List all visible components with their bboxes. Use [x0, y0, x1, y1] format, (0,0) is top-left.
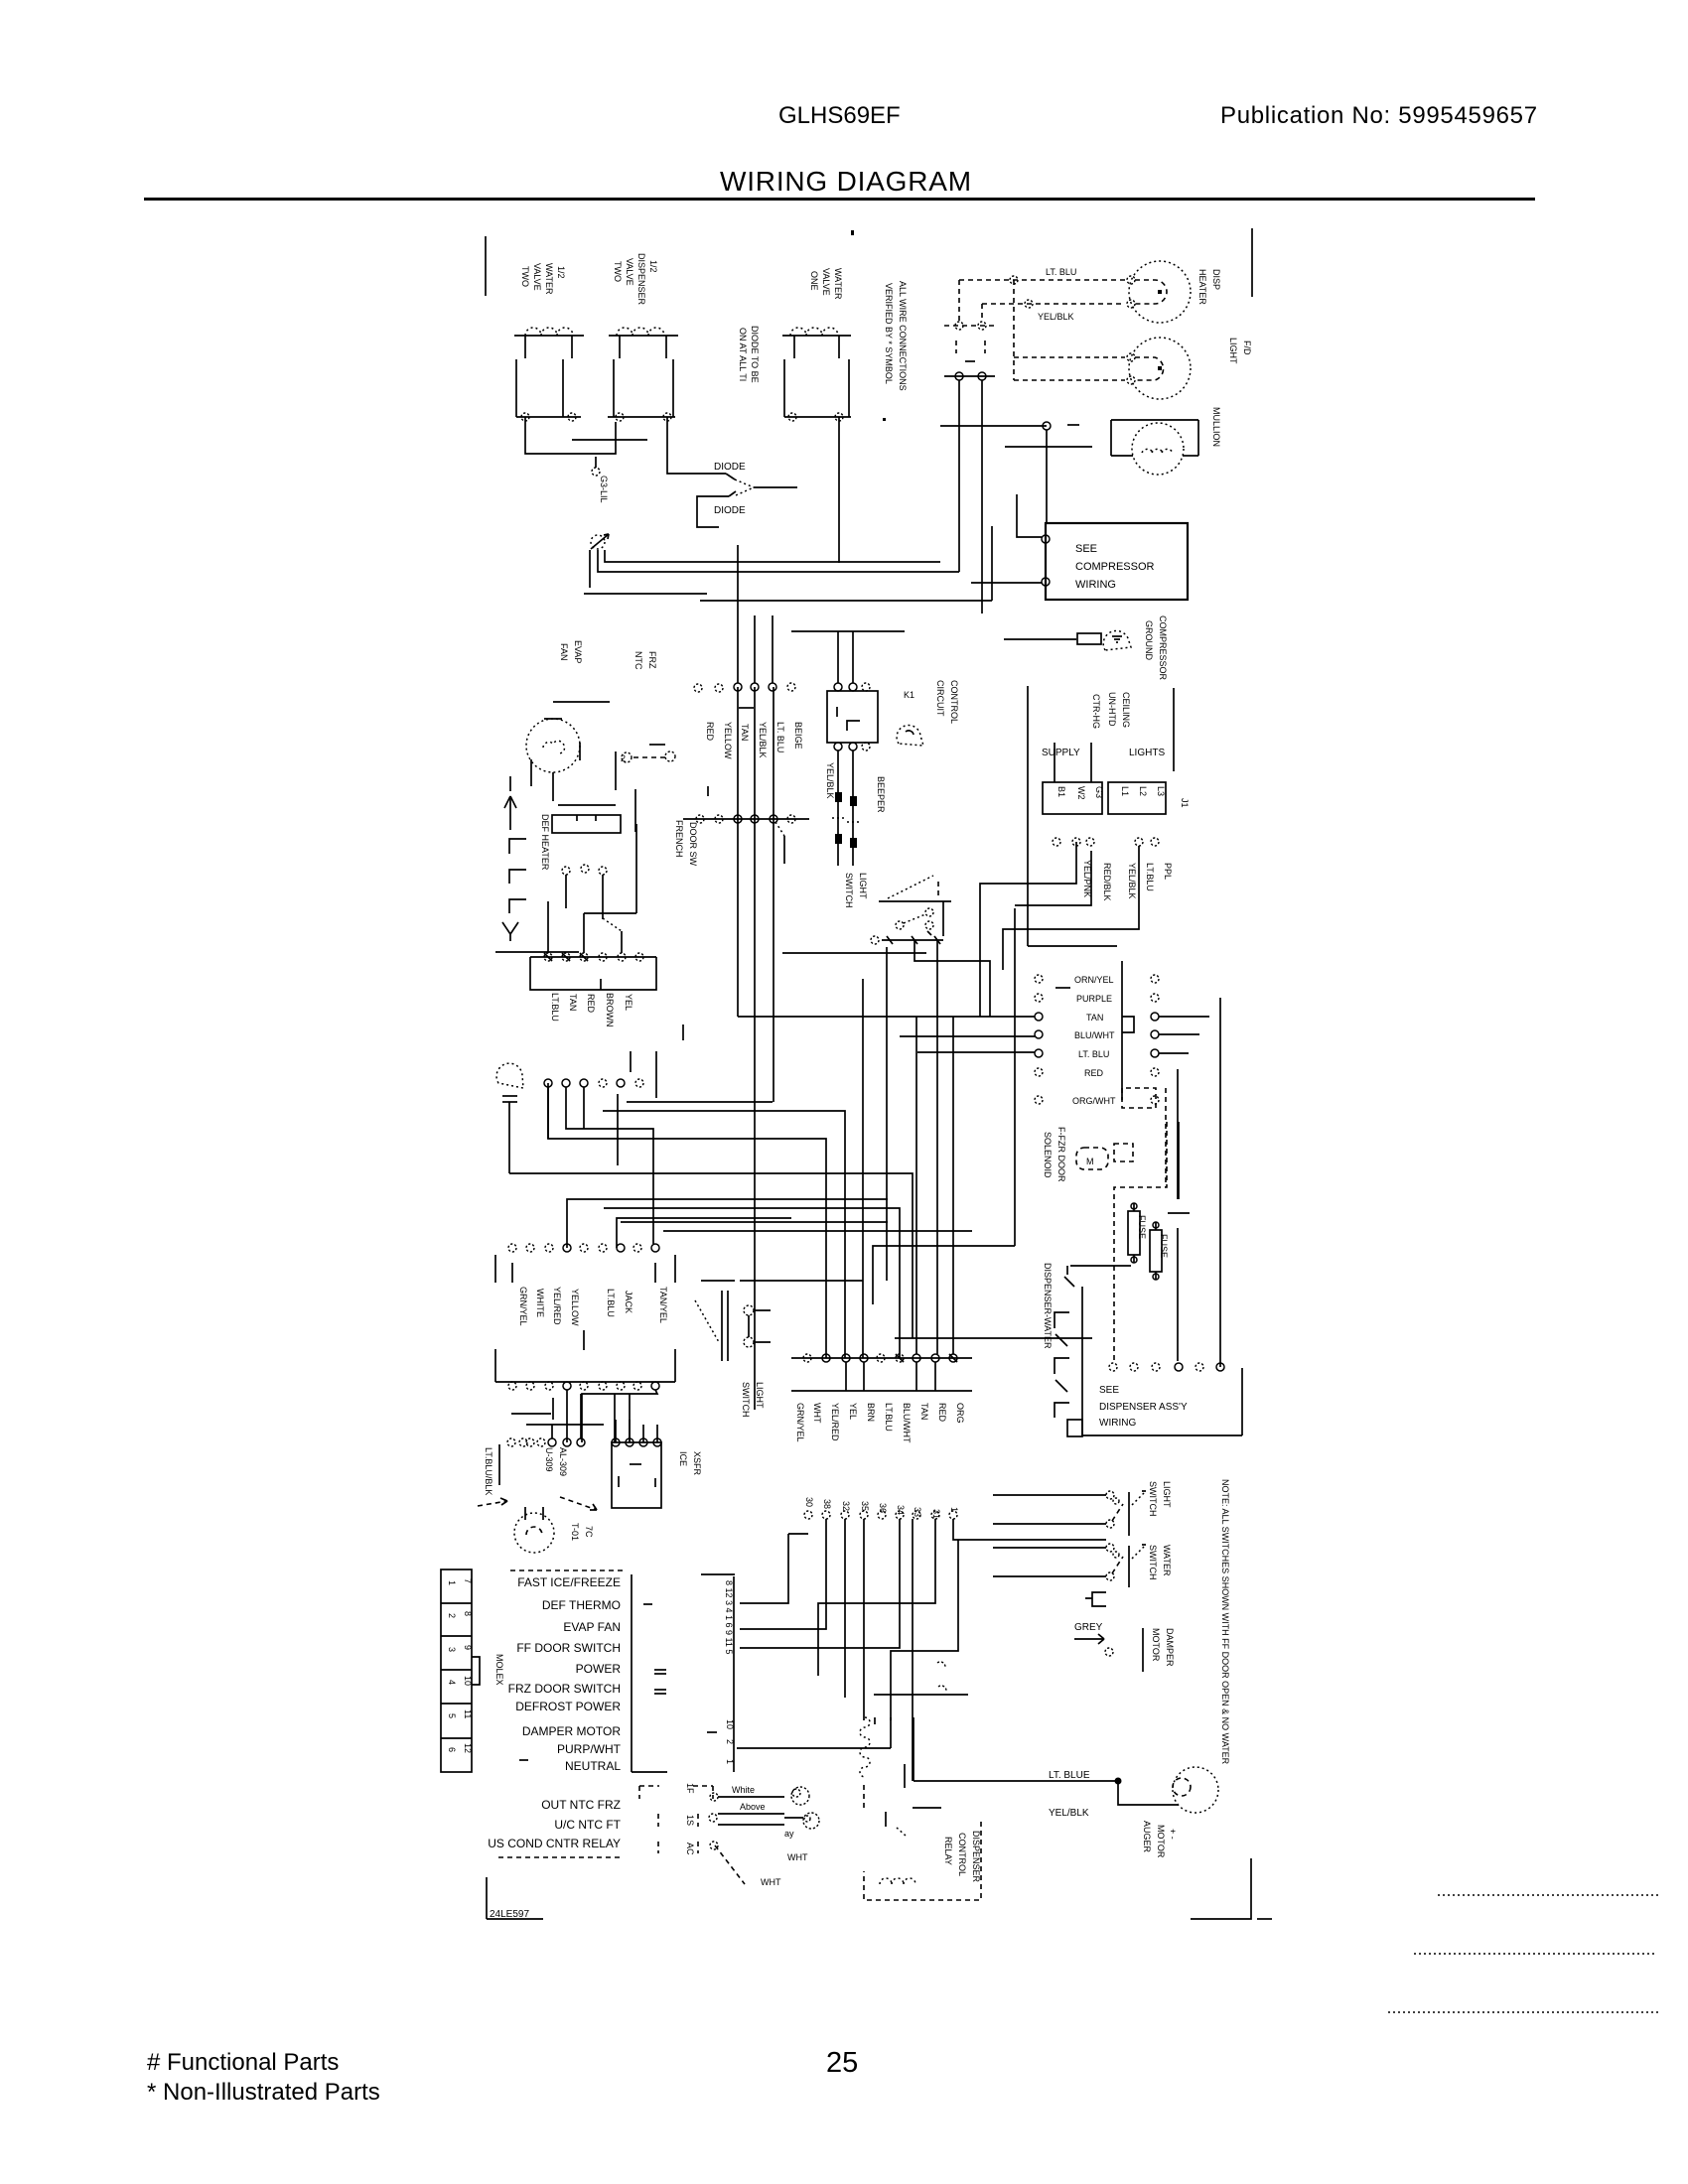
- pin row under J boxes: [1053, 838, 1159, 846]
- svg-text:TWO: TWO: [520, 266, 530, 287]
- lattice 1182 run: [509, 1173, 913, 1338]
- dispenser master switch wire: [1064, 1266, 1131, 1435]
- svg-text:32: 32: [841, 1501, 851, 1511]
- svg-text:35: 35: [860, 1501, 870, 1511]
- svg-text:LT.BLU: LT.BLU: [606, 1289, 616, 1317]
- defrost timer motor: [514, 1507, 554, 1553]
- ntc link: [621, 745, 675, 763]
- compressor ground terminal: [1077, 633, 1101, 644]
- svg-text:DIODE: DIODE: [714, 462, 746, 473]
- timer leader arrows: [478, 1497, 597, 1510]
- svg-text:* Non-Illustrated Parts: * Non-Illustrated Parts: [147, 2079, 380, 2106]
- light switch symbol: [879, 876, 951, 936]
- main connector row3: [791, 1354, 972, 1391]
- wire riser to compressor box: [991, 526, 993, 601]
- svg-text:36: 36: [878, 1503, 888, 1513]
- wht dashed lead: [715, 1845, 808, 1887]
- lattice 1255 run: [873, 1246, 1015, 1304]
- svg-text:1S: 1S: [685, 1815, 695, 1826]
- svg-text:RED: RED: [586, 994, 596, 1014]
- mullion heater box: [1111, 420, 1198, 456]
- wire switch drop a: [886, 947, 888, 1281]
- svg-text:RED/BLK: RED/BLK: [1102, 863, 1112, 901]
- rail corner bottom: [632, 1771, 667, 1773]
- vertical 1186: [1177, 1069, 1179, 1361]
- title rule: [144, 198, 1535, 201]
- power board connector row: [508, 1244, 659, 1252]
- svg-text:GLHS69EF: GLHS69EF: [778, 102, 901, 129]
- svg-text:ONE: ONE: [809, 271, 819, 291]
- row3 wire labels: [795, 1403, 965, 1443]
- lt blue feed vertical: [913, 1717, 914, 1781]
- svg-text:BROWN: BROWN: [605, 993, 615, 1027]
- svg-text:GRN/YEL: GRN/YEL: [518, 1287, 528, 1326]
- disp water switch cluster: [993, 1544, 1146, 1587]
- svg-text:YEL/BLK: YEL/BLK: [758, 722, 768, 758]
- dispenser valve body: [608, 359, 675, 421]
- svg-text:Publication No: 5995459657: Publication No: 5995459657: [1220, 102, 1538, 129]
- wire neutral corner: [875, 1717, 891, 1748]
- row4 numbered pins: [804, 1497, 959, 1519]
- lt blue wire: [914, 1770, 1122, 1785]
- svg-text:TAN: TAN: [1086, 1013, 1103, 1023]
- lattice 1348 run: [895, 1337, 1092, 1339]
- wire overload row: [940, 422, 1079, 523]
- water valve two label: [520, 263, 566, 295]
- svg-text:CONTROL: CONTROL: [949, 680, 959, 724]
- disp light switch label: [1148, 1481, 1172, 1517]
- svg-text:8 12 3 4 1 6 9 11 5: 8 12 3 4 1 6 9 11 5: [724, 1580, 734, 1654]
- water valve two body: [516, 359, 581, 421]
- wire color labels under J: [1082, 860, 1173, 901]
- svg-text:WIRING: WIRING: [1075, 579, 1116, 591]
- svg-text:FRENCH: FRENCH: [674, 820, 684, 858]
- svg-text:NTC: NTC: [633, 651, 643, 670]
- svg-text:DISPENSER-WATER: DISPENSER-WATER: [1043, 1263, 1053, 1349]
- lattice 1290 run: [740, 1280, 863, 1282]
- id labels right: [707, 1719, 735, 1764]
- row4 fanout wires: [740, 1519, 1106, 1781]
- wire above fan: [553, 701, 610, 703]
- compressor ground lug: [1103, 630, 1131, 650]
- svg-text:SWITCH: SWITCH: [1148, 1545, 1158, 1580]
- compressor terminal row: [944, 372, 995, 572]
- relay list ticks: [519, 1604, 666, 1760]
- dispenser relay small stubs: [864, 1764, 941, 1836]
- frz door labels: [1043, 1127, 1066, 1182]
- svg-text:BEEPER: BEEPER: [876, 776, 886, 813]
- svg-text:ICE: ICE: [678, 1451, 688, 1466]
- stub by fuse: [1168, 1212, 1190, 1214]
- defrost heater cap symbol: [695, 1281, 735, 1361]
- wire ntc drops: [616, 751, 635, 832]
- compressor ground wire: [1004, 638, 1076, 640]
- svg-text:LIGHT: LIGHT: [1228, 338, 1238, 364]
- svg-text:K1: K1: [904, 690, 914, 700]
- svg-text:DISPENSER: DISPENSER: [971, 1831, 981, 1883]
- light switch pin row: [871, 936, 943, 944]
- timer label: [570, 1523, 594, 1541]
- ice xsfr label: [678, 1451, 702, 1476]
- water valve one label: [809, 268, 843, 300]
- svg-text:U-309: U-309: [544, 1447, 554, 1472]
- svg-text:PURPLE: PURPLE: [1076, 994, 1112, 1004]
- svg-text:WHITE: WHITE: [535, 1289, 545, 1317]
- dispenser heater label: [1197, 269, 1221, 305]
- svg-text:CEILING: CEILING: [1121, 692, 1131, 728]
- damper motor label: [1151, 1628, 1175, 1667]
- svg-text:TAN: TAN: [568, 994, 578, 1011]
- power board box: [495, 1255, 675, 1382]
- svg-text:12: 12: [463, 1743, 473, 1753]
- ground lug lower left: [496, 1063, 523, 1173]
- strain squiggle: [860, 1717, 870, 1777]
- lattice 1217 run: [604, 1208, 900, 1358]
- svg-text:1F: 1F: [685, 1783, 695, 1794]
- beeper symbol: [897, 726, 923, 746]
- wire right mid vertical: [1027, 686, 1029, 946]
- all wire connections note: [883, 281, 908, 421]
- aux contact: [1085, 1592, 1106, 1606]
- svg-text:YELLOW: YELLOW: [723, 722, 733, 759]
- connector box F: [552, 805, 621, 833]
- wire drop t2 lower: [754, 687, 756, 1410]
- svg-text:GREY: GREY: [1074, 1622, 1103, 1633]
- svg-text:WIRING: WIRING: [1099, 1418, 1136, 1429]
- stray dot top: [851, 230, 854, 235]
- svg-text:EVAP FAN: EVAP FAN: [563, 1620, 621, 1634]
- svg-text:RELAY: RELAY: [943, 1837, 953, 1865]
- freezer harness connector row2: [544, 1079, 653, 1244]
- svg-text:25: 25: [826, 2047, 858, 2079]
- svg-text:WIRING DIAGRAM: WIRING DIAGRAM: [720, 166, 972, 197]
- nested corner c4: [1028, 945, 1117, 947]
- lilac wire stub: [592, 457, 609, 503]
- svg-text:MULLION: MULLION: [1211, 407, 1221, 447]
- svg-text:1: 1: [949, 1507, 959, 1512]
- fork terminal: [502, 922, 518, 941]
- wire dispenser valve crossing: [572, 439, 647, 441]
- harness pins above: [548, 824, 636, 953]
- auger motor: [1173, 1767, 1218, 1813]
- svg-text:1/2: 1/2: [648, 260, 658, 273]
- svg-text:G3-LIL: G3-LIL: [599, 476, 609, 503]
- svg-text:PURP/WHT: PURP/WHT: [557, 1742, 622, 1756]
- wire drop t1: [737, 545, 739, 683]
- svg-text:MOTOR: MOTOR: [1156, 1825, 1166, 1858]
- evap fan label: [559, 640, 583, 663]
- svg-text:F/D: F/D: [1242, 341, 1252, 355]
- solid drop 1187 upper: [1178, 1122, 1180, 1199]
- wire tee to pins: [791, 631, 905, 683]
- svg-text:US COND CNTR RELAY: US COND CNTR RELAY: [488, 1837, 621, 1850]
- svg-text:SOLENOID: SOLENOID: [1043, 1132, 1053, 1178]
- svg-text:31: 31: [931, 1509, 941, 1519]
- svg-text:VALVE: VALVE: [625, 258, 634, 286]
- stub nc: [682, 1024, 684, 1040]
- dotted leader 2: [1414, 1953, 1657, 1955]
- svg-text:SEE: SEE: [1099, 1385, 1119, 1396]
- right pin number column: [701, 1574, 735, 1654]
- wire switch to bus: [914, 940, 990, 1017]
- water valve one body: [784, 359, 851, 421]
- wire to compressor see box lower: [971, 582, 1042, 584]
- svg-text:7: 7: [463, 1578, 473, 1583]
- nested corner c3: [1003, 846, 1139, 970]
- bus wire lower: [598, 550, 959, 572]
- diode pair symbol: [697, 474, 797, 527]
- supply connector J box A: [1043, 743, 1104, 814]
- french door switch label: [674, 820, 698, 867]
- svg-text:DAMPER MOTOR: DAMPER MOTOR: [522, 1724, 621, 1738]
- svg-text:FUSE: FUSE: [1159, 1234, 1169, 1258]
- water valve one coil: [782, 328, 851, 358]
- svg-text:BRN: BRN: [866, 1403, 876, 1422]
- svg-text:WATER: WATER: [544, 263, 554, 295]
- svg-text:DIODE: DIODE: [714, 505, 746, 516]
- svg-text:1/2: 1/2: [556, 266, 566, 279]
- control circuit label: [904, 680, 959, 724]
- relay coil: [880, 1878, 915, 1884]
- svg-text:ORN/YEL: ORN/YEL: [1074, 975, 1114, 985]
- pin labels wht yel: [705, 722, 803, 759]
- svg-text:FF DOOR SWITCH: FF DOOR SWITCH: [516, 1641, 621, 1655]
- lights supply vertical: [1173, 688, 1175, 771]
- bus wire upper: [605, 550, 940, 562]
- dotted leader 1: [1438, 1894, 1658, 1896]
- ground lug node: [591, 534, 609, 549]
- svg-text:2: 2: [447, 1613, 457, 1618]
- svg-text:YEL/RED: YEL/RED: [552, 1287, 562, 1325]
- svg-text:BLU/WHT: BLU/WHT: [902, 1403, 912, 1443]
- evap fan motor: [526, 719, 580, 772]
- svg-text:MOLEX: MOLEX: [494, 1654, 504, 1686]
- svg-text:11: 11: [463, 1709, 473, 1718]
- fan wire stubs: [510, 743, 580, 801]
- svg-text:YEL: YEL: [624, 994, 633, 1011]
- svg-text:ON AT ALL TI: ON AT ALL TI: [738, 328, 748, 381]
- main bus horizontal: [738, 1016, 1035, 1018]
- svg-text:30: 30: [804, 1497, 814, 1507]
- svg-text:YEL/RED: YEL/RED: [830, 1403, 840, 1441]
- svg-text:L3: L3: [1156, 786, 1166, 796]
- lights connector J box B: [1108, 782, 1166, 814]
- gray wires out: [718, 1802, 794, 1839]
- frz door motor dashed: [1076, 1144, 1133, 1169]
- dispenser heater: [1127, 261, 1191, 323]
- al309 labels: [544, 1447, 568, 1476]
- wire under ground: [584, 593, 707, 595]
- svg-text:7C: 7C: [584, 1526, 594, 1538]
- see dispenser assy box: [1082, 1368, 1242, 1435]
- svg-text:T-01: T-01: [570, 1523, 580, 1541]
- svg-text:RED: RED: [1084, 1068, 1104, 1078]
- disp light switch cluster: [993, 1491, 1146, 1536]
- lattice 1231 run: [621, 1221, 888, 1223]
- bus wire three: [700, 600, 992, 602]
- svg-text:DISPENSER: DISPENSER: [636, 253, 646, 306]
- svg-text:LT.BLU: LT.BLU: [884, 1403, 894, 1432]
- compressor relay dashed frame: [944, 276, 1125, 380]
- svg-text:24LE597: 24LE597: [490, 1909, 529, 1920]
- svg-text:LIGHT: LIGHT: [1162, 1481, 1172, 1508]
- wire drop t3: [772, 615, 774, 683]
- svg-text:OUT NTC FRZ: OUT NTC FRZ: [541, 1798, 621, 1812]
- wire drop t3 lower: [773, 687, 774, 1102]
- J2 wire color list: [1072, 975, 1116, 1106]
- wire dispenser valve to diode: [667, 417, 726, 474]
- wire valve one down: [838, 417, 840, 563]
- power board bottom pins: [508, 1382, 659, 1390]
- harness wire labels: [550, 993, 633, 1027]
- lattice 1147 run: [548, 1083, 826, 1358]
- stub verticals mid: [617, 1094, 619, 1165]
- wire drop t2: [754, 615, 756, 683]
- wires below control box: [832, 751, 859, 866]
- fd light label: [1228, 338, 1252, 364]
- freezer harness body: [530, 957, 656, 990]
- defrost heater arrow: [504, 796, 516, 830]
- svg-text:MOTOR: MOTOR: [1151, 1628, 1161, 1662]
- nc terminal brackets: [509, 839, 526, 913]
- row4 pins left: [499, 1394, 585, 1485]
- disp water switch label: [1148, 1545, 1172, 1580]
- fuse two: [1150, 1222, 1169, 1280]
- svg-text:WATER: WATER: [833, 268, 843, 300]
- svg-text:ORG/WHT: ORG/WHT: [1072, 1096, 1116, 1106]
- svg-text:ALL WIRE CONNECTIONS: ALL WIRE CONNECTIONS: [898, 281, 908, 391]
- lattice 1208 run: [567, 1199, 888, 1248]
- svg-text:TWO: TWO: [613, 261, 623, 282]
- compressor ground label: [1144, 615, 1168, 681]
- svg-text:FRZ DOOR SWITCH: FRZ DOOR SWITCH: [508, 1682, 621, 1696]
- svg-text:AUGER: AUGER: [1142, 1821, 1152, 1853]
- svg-text:SUPPLY: SUPPLY: [1042, 748, 1080, 758]
- wires below power board: [511, 1390, 657, 1442]
- dotted leader 3: [1388, 2011, 1658, 2013]
- svg-text:ay: ay: [784, 1829, 794, 1839]
- org wht dashed route: [1122, 1088, 1166, 1187]
- wire drop t1 lower: [737, 687, 739, 1017]
- svg-text:M: M: [1086, 1157, 1094, 1166]
- wire riser right: [981, 526, 983, 614]
- svg-text:RED: RED: [937, 1403, 947, 1423]
- svg-text:TAN: TAN: [740, 724, 750, 741]
- svg-text:WATER: WATER: [1162, 1545, 1172, 1576]
- diagram left border tick: [485, 236, 487, 296]
- svg-text:AC: AC: [685, 1843, 695, 1855]
- white wire out: [718, 1785, 784, 1797]
- svg-text:GROUND: GROUND: [1144, 620, 1154, 660]
- long vertical to dispenser: [1219, 998, 1221, 1367]
- svg-text:LIGHT: LIGHT: [858, 873, 868, 899]
- svg-text:TAN: TAN: [919, 1403, 929, 1420]
- wire ground stub left: [589, 550, 591, 588]
- relay list vertical rail: [631, 1574, 633, 1772]
- svg-text:J1: J1: [1180, 798, 1190, 808]
- lattice 1227 run: [617, 1218, 791, 1248]
- svg-text:DEF THERMO: DEF THERMO: [542, 1598, 621, 1612]
- diagram right border tick: [1251, 228, 1253, 297]
- svg-text:+ -: + -: [1168, 1829, 1178, 1840]
- dashed table top border: [510, 1570, 623, 1571]
- svg-text:3: 3: [447, 1647, 457, 1652]
- drawing number bracket: [487, 1877, 543, 1920]
- svg-text:G3: G3: [1094, 786, 1104, 798]
- freezer harness connector row1: [530, 953, 656, 961]
- molex bracket: [472, 1657, 480, 1685]
- svg-text:COMPRESSOR: COMPRESSOR: [1075, 561, 1155, 573]
- J2 connector right pins: [1151, 975, 1159, 1104]
- dispenser valve label: [613, 253, 658, 306]
- svg-text:DISP: DISP: [1211, 269, 1221, 290]
- lattice h 1044: [900, 1035, 1035, 1037]
- svg-text:XSFR: XSFR: [692, 1451, 702, 1476]
- svg-text:W2: W2: [1076, 786, 1086, 800]
- svg-text:YELLOW: YELLOW: [570, 1289, 580, 1326]
- svg-text:White: White: [732, 1785, 755, 1795]
- svg-text:JACK: JACK: [624, 1291, 633, 1313]
- svg-text:PPL: PPL: [1163, 863, 1173, 880]
- svg-text:SEE: SEE: [1075, 543, 1097, 555]
- light switch label: [844, 873, 868, 908]
- mullion heater element: [1132, 423, 1184, 475]
- control circuit box: [827, 691, 878, 751]
- svg-text:6: 6: [447, 1747, 457, 1752]
- svg-text:B1: B1: [1056, 786, 1066, 797]
- svg-text:WHT: WHT: [761, 1877, 781, 1887]
- svg-text:LT. BLU: LT. BLU: [775, 722, 785, 752]
- wire from table right: [737, 1747, 891, 1749]
- svg-text:DOOR SW: DOOR SW: [688, 822, 698, 867]
- ntc dashed separator: [498, 1856, 623, 1858]
- svg-text:YEL/BLK: YEL/BLK: [825, 762, 835, 799]
- fd light wires: [1014, 357, 1125, 380]
- wire switch drop b: [862, 979, 864, 1358]
- svg-text:VALVE: VALVE: [532, 263, 542, 291]
- svg-text:LT. BLU: LT. BLU: [1046, 267, 1076, 277]
- svg-text:SWITCH: SWITCH: [844, 873, 854, 908]
- svg-text:CIRCUIT: CIRCUIT: [935, 680, 945, 717]
- svg-text:DEF HEATER: DEF HEATER: [540, 814, 550, 871]
- grey wire: [1074, 1634, 1113, 1656]
- svg-text:YEL/BLK: YEL/BLK: [1049, 1808, 1089, 1819]
- row3 verticals: [846, 940, 953, 1391]
- svg-text:TAN/YEL: TAN/YEL: [658, 1287, 668, 1323]
- power board labels: [518, 1287, 668, 1326]
- svg-text:SWITCH: SWITCH: [741, 1382, 751, 1418]
- lattice 1240 run: [663, 1230, 972, 1232]
- svg-text:POWER: POWER: [576, 1662, 622, 1676]
- bus from row2 a: [627, 1101, 773, 1103]
- tick under pins: [739, 707, 754, 709]
- auger ground corner: [1191, 1858, 1272, 1919]
- svg-text:CONTROL: CONTROL: [957, 1833, 967, 1876]
- svg-text:LT. BLU: LT. BLU: [1078, 1049, 1109, 1059]
- wire to compressor see box upper: [1017, 494, 1042, 537]
- lattice h 1060: [917, 1051, 1035, 1053]
- svg-text:# Functional Parts: # Functional Parts: [147, 2049, 339, 2076]
- svg-text:BEIGE: BEIGE: [793, 722, 803, 750]
- svg-text:LIGHTS: LIGHTS: [1129, 748, 1165, 758]
- svg-text:YEL: YEL: [848, 1403, 858, 1420]
- svg-text:WHT: WHT: [812, 1403, 822, 1424]
- ntc bracket set two: [693, 1786, 718, 1853]
- svg-text:COMPRESSOR: COMPRESSOR: [1158, 615, 1168, 681]
- svg-text:BLU/WHT: BLU/WHT: [1074, 1030, 1115, 1040]
- svg-text:ORG: ORG: [955, 1403, 965, 1424]
- svg-text:WHT: WHT: [787, 1852, 808, 1862]
